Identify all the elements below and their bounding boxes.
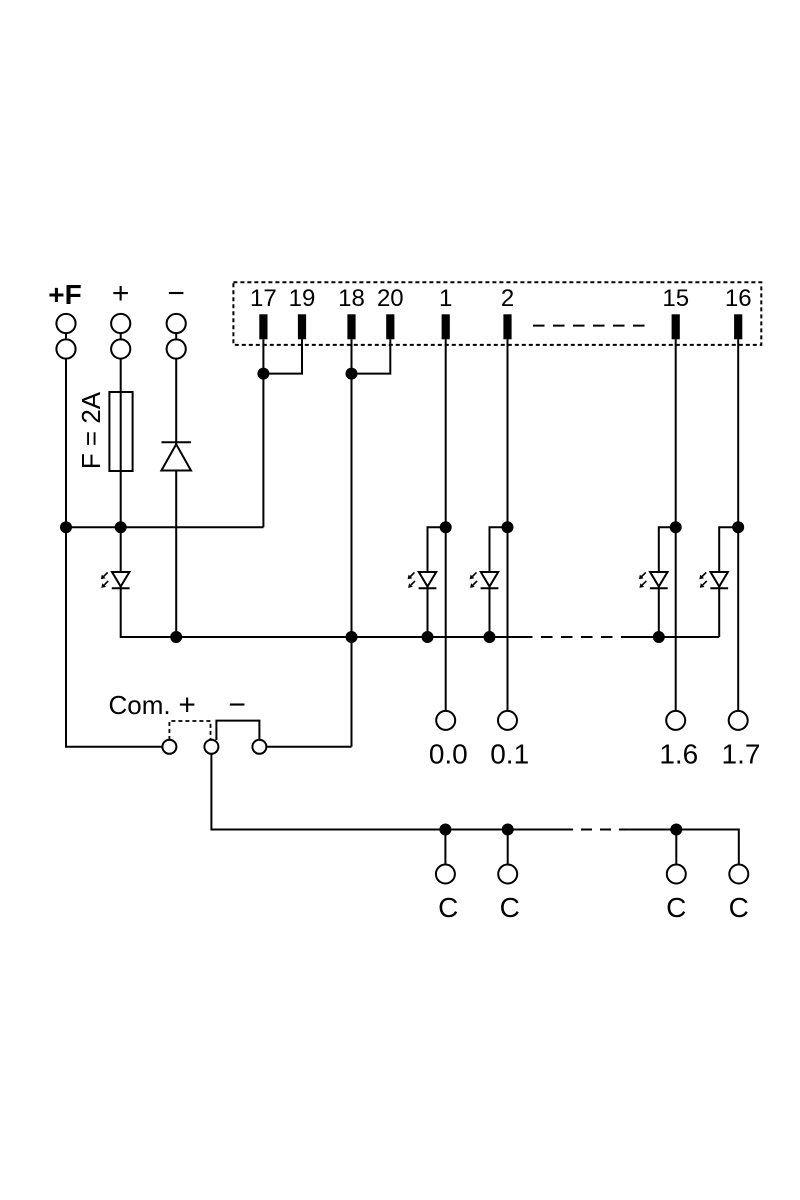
svg-text:+: + xyxy=(112,277,130,310)
svg-text:15: 15 xyxy=(662,285,689,312)
terminal + double feed-through circles xyxy=(111,314,130,359)
wire LED branch for 1.6 xyxy=(659,527,676,637)
node 18 mid bus xyxy=(346,631,358,643)
svg-text:F = 2A: F = 2A xyxy=(76,391,106,469)
wire + column (terminals through fuse down to rail) xyxy=(120,324,122,528)
wire stem to terminal C2 xyxy=(507,830,509,865)
common terminal C4 xyxy=(729,865,749,924)
output terminal 1.6 xyxy=(659,711,698,770)
terminal − double feed-through circles xyxy=(167,314,186,359)
common terminal C2 xyxy=(498,865,520,924)
svg-text:1.7: 1.7 xyxy=(722,739,761,770)
wire output column 1.7 xyxy=(737,339,739,711)
node + rail xyxy=(115,521,127,533)
wire LED branch for 0.0 xyxy=(428,527,446,637)
connector pin 2 xyxy=(501,285,514,339)
common terminal C3 xyxy=(666,865,686,924)
diode triangle xyxy=(161,444,191,470)
com terminal Com. circle xyxy=(162,740,176,754)
wire +F column (terminals down to lower-left rail) xyxy=(65,324,67,528)
svg-text:Com.: Com. xyxy=(109,690,171,720)
svg-text:18: 18 xyxy=(338,285,365,312)
connector pin 18 xyxy=(338,285,365,339)
svg-text:16: 16 xyxy=(725,285,752,312)
wire com − terminal to pin 18 column xyxy=(266,746,351,748)
wire stem to terminal C3 xyxy=(675,830,677,865)
node − mid bus xyxy=(170,631,182,643)
node LED 0.0 bus xyxy=(422,631,434,643)
connector box (dashed outline) xyxy=(233,282,761,345)
fuse F 2A xyxy=(109,392,132,471)
common terminal C1 xyxy=(436,865,458,924)
solid link + to − xyxy=(216,721,259,740)
wire com + down to bottom common bus xyxy=(211,754,562,830)
connector pin 1 xyxy=(439,285,452,339)
svg-text:0.0: 0.0 xyxy=(429,739,468,770)
com terminal + circle xyxy=(204,740,218,754)
node LED 1.6 bus xyxy=(653,631,665,643)
svg-text:−: − xyxy=(167,277,185,310)
svg-text:C: C xyxy=(438,892,458,923)
connector pin 20 xyxy=(377,285,404,339)
connector pin 17 xyxy=(250,285,277,339)
wire LED branch for 0.1 xyxy=(490,527,508,637)
LED 1.6 xyxy=(639,572,668,588)
wire mid bus right section up to LED 1.7 branch xyxy=(626,636,719,638)
LED supply indicator xyxy=(101,572,130,588)
LED 0.0 xyxy=(408,572,437,588)
svg-text:C: C xyxy=(666,892,686,923)
node 1.6 branch xyxy=(670,521,682,533)
svg-text:−: − xyxy=(228,689,246,722)
output terminal 0.1 xyxy=(490,711,529,770)
node C1 bus xyxy=(439,824,451,836)
wire output column 1.6 xyxy=(675,339,677,711)
connector pin 16 xyxy=(725,285,752,339)
wire stem to terminal C1 xyxy=(444,830,446,865)
wire bottom bus right section down to last C terminal xyxy=(629,830,738,865)
wire pin 17 down to node row xyxy=(262,339,264,527)
wire +F column down to Com. terminal xyxy=(66,527,162,747)
svg-text:0.1: 0.1 xyxy=(490,739,529,770)
wire pin 19 jumper to pin 17 xyxy=(263,339,302,373)
svg-text:17: 17 xyxy=(250,285,277,312)
wire pin 18 column down to com − terminal row xyxy=(351,339,353,747)
wire upper-left rail (+F, +, pin17 node row) xyxy=(66,526,263,528)
output terminal 1.7 xyxy=(722,711,761,770)
node pins 18/20 xyxy=(346,368,358,380)
output terminal 0.0 xyxy=(429,711,468,770)
node C3 bus xyxy=(670,824,682,836)
LED 0.1 xyxy=(470,572,499,588)
connector pin 15 xyxy=(662,285,689,339)
svg-text:C: C xyxy=(729,892,749,923)
wire output column 0.0 xyxy=(445,339,447,711)
wire output column 0.1 xyxy=(507,339,509,711)
diode (reverse polarity protection), cathode bar xyxy=(162,441,191,443)
wire − column (terminals through diode down to mid bus) xyxy=(175,324,177,638)
node LED 0.1 bus xyxy=(484,631,496,643)
wire mid LED cathode bus xyxy=(121,527,521,637)
svg-text:19: 19 xyxy=(289,285,316,312)
node +F rail xyxy=(60,521,72,533)
svg-text:20: 20 xyxy=(377,285,404,312)
connector continuation dashes between pins 2 and 15 xyxy=(533,325,652,327)
node C2 bus xyxy=(502,824,514,836)
svg-text:1.6: 1.6 xyxy=(659,739,698,770)
node 1.7 branch xyxy=(732,521,744,533)
svg-text:C: C xyxy=(500,892,520,923)
svg-text:2: 2 xyxy=(501,285,514,312)
svg-text:1: 1 xyxy=(439,285,452,312)
wire mid bus continuation dashes xyxy=(521,636,626,638)
node 0.1 branch xyxy=(502,521,514,533)
LED 1.7 xyxy=(699,572,728,588)
node 0.0 branch xyxy=(440,521,452,533)
wire bottom bus continuation dashes xyxy=(562,829,629,831)
wire pin 20 jumper to pin 18 xyxy=(352,339,391,373)
svg-text:+F: +F xyxy=(48,279,81,310)
connector pin 19 xyxy=(289,285,316,339)
com terminal − circle xyxy=(252,740,266,754)
dashed link Com. to + xyxy=(169,721,210,740)
svg-text:+: + xyxy=(178,689,196,722)
node pins 17/19 xyxy=(257,368,269,380)
terminal +F double feed-through circles xyxy=(56,314,75,359)
wire LED branch for 1.7 xyxy=(719,527,738,637)
